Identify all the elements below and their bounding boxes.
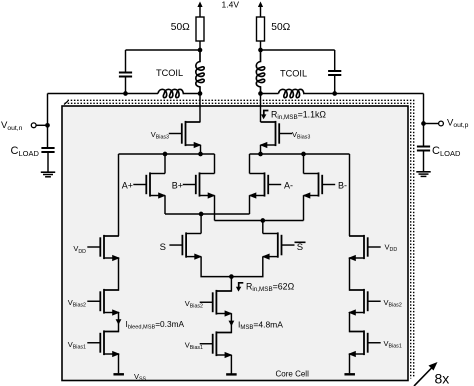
label A- — [284, 181, 293, 191]
capacitor cload left — [41, 148, 54, 152]
current arrow Ibleed — [116, 319, 122, 325]
label A+ — [122, 181, 133, 191]
capacitor cload right — [417, 147, 430, 151]
node right cap — [332, 91, 337, 96]
wire S drain — [200, 214, 202, 234]
svg-text:A-: A- — [284, 181, 293, 191]
label VBias3 left — [151, 130, 169, 141]
node S drain — [199, 212, 204, 217]
label vout_p — [447, 118, 469, 130]
wire left branch — [186, 94, 201, 123]
label B+ — [172, 181, 183, 191]
transistor VDD left — [87, 235, 120, 261]
label cload left — [11, 145, 40, 158]
label Ibleed — [126, 319, 185, 331]
transistor A- — [249, 172, 282, 198]
wire A+ drain — [164, 154, 166, 174]
node VBias3 left source — [198, 152, 203, 157]
label VBias2 right — [384, 298, 402, 309]
node vout_p — [421, 121, 426, 126]
wire tail to VBias2 — [216, 277, 231, 291]
inductor left vertical — [196, 50, 204, 94]
wire left stack top — [118, 154, 120, 236]
wire S source — [201, 257, 231, 277]
node tail — [229, 274, 234, 279]
wire left cap bottom — [125, 77, 127, 94]
wire vout_p — [424, 94, 439, 147]
label Sbar — [295, 242, 306, 253]
transistor VBias2 center — [200, 290, 233, 317]
transistor VBias1 left — [87, 330, 120, 357]
label VBias3 right — [292, 130, 310, 141]
node left tcoil — [198, 91, 203, 96]
wire left cap top — [126, 50, 201, 72]
wire A+ source — [164, 196, 166, 215]
capacitor right tcoil — [328, 71, 341, 75]
label core cell — [276, 370, 310, 379]
replica dotted border inner — [65, 103, 411, 378]
wire vout_n — [36, 94, 47, 148]
transistor VDD right — [348, 235, 381, 261]
wire VDD right drain — [350, 235, 365, 237]
supply label 1.4V — [222, 0, 240, 9]
wire left out line — [48, 93, 201, 95]
transistor A+ — [133, 172, 166, 198]
replica dotted border outer — [64, 100, 414, 377]
label Rin MSB 62 — [246, 281, 295, 293]
wire right branch — [261, 94, 276, 123]
label 8x — [435, 371, 450, 386]
wire VBias2 right source — [350, 313, 365, 332]
node left cap — [123, 91, 128, 96]
wire VDD right source — [350, 258, 365, 290]
wire VBias2 left source — [104, 313, 119, 332]
node right resistor — [258, 48, 263, 53]
supply arrow left — [197, 2, 202, 18]
transistor VBias1 center — [200, 331, 233, 358]
svg-text:B+: B+ — [172, 181, 183, 191]
wire out line right — [250, 153, 350, 155]
node B- drain — [301, 152, 306, 157]
resistor 50ohm left — [196, 17, 204, 50]
wire VBias1 right source — [349, 354, 351, 373]
label TCOIL right — [280, 68, 307, 78]
wire right stack top — [349, 154, 351, 236]
label VDD right — [385, 242, 398, 253]
node Sbar drain — [260, 218, 265, 223]
node VBias3 right source — [258, 152, 263, 157]
supply arrow right — [258, 2, 263, 18]
label Rin MSB 1.1k — [271, 109, 326, 121]
transistor B- — [303, 172, 336, 198]
ground left — [41, 172, 55, 177]
node A+ drain — [163, 152, 168, 157]
wire VDD left drain — [104, 235, 119, 237]
transistor VBias2 left — [87, 289, 120, 316]
annotation Rin MSB 62 arrow — [236, 283, 243, 292]
terminal vout_p — [439, 121, 444, 126]
transistor VBias3 right — [260, 121, 293, 148]
transistor VBias3 left — [169, 121, 202, 148]
wire Sbar drain — [262, 221, 264, 234]
annotation Rin MSB 1.1k arrow — [261, 111, 268, 120]
wire VBias2 center source — [216, 314, 231, 333]
label B- — [338, 181, 347, 191]
node left resistor — [198, 48, 203, 53]
label VDD left — [73, 244, 86, 255]
wire VDD left source — [104, 258, 119, 290]
wire VBias1 left source — [118, 354, 120, 373]
wire B+ drain — [214, 154, 216, 174]
wire line B — [215, 220, 304, 222]
transistor VBias2 right — [348, 289, 381, 316]
inductor right horizontal — [279, 89, 305, 97]
svg-text:B-: B- — [338, 181, 347, 191]
svg-text:TCOIL: TCOIL — [280, 68, 307, 78]
wire VBias3 left source — [200, 145, 202, 154]
svg-text:S: S — [160, 242, 166, 253]
wire Sbar source — [231, 257, 262, 277]
transistor VBias1 right — [348, 330, 381, 357]
terminal VSS center — [226, 373, 237, 375]
svg-text:50Ω: 50Ω — [271, 22, 290, 33]
label VBias1 right — [384, 339, 402, 350]
inductor right vertical — [256, 50, 264, 94]
label VBias1 left — [68, 340, 86, 351]
transistor S — [169, 232, 202, 259]
node right tcoil — [258, 91, 263, 96]
wire right out line — [261, 93, 424, 95]
label vout_n — [1, 120, 23, 132]
svg-text:Core Cell: Core Cell — [276, 370, 310, 379]
wire VBias1 center source — [230, 355, 232, 374]
wire line A — [165, 213, 250, 215]
node vout_n — [45, 123, 50, 128]
label VBias2 left — [68, 298, 86, 309]
wire B- source — [303, 196, 305, 221]
current arrow IMSB — [229, 321, 235, 327]
resistor 50ohm right — [257, 17, 265, 50]
svg-text:1.4V: 1.4V — [222, 0, 240, 9]
label IMSB — [238, 320, 283, 332]
wire out line left — [119, 153, 215, 155]
wire right cap top — [261, 50, 335, 71]
wire A- source — [249, 196, 251, 215]
ground right — [416, 172, 430, 177]
terminal vout_n — [31, 123, 36, 128]
label cload right — [432, 145, 461, 158]
label TCOIL left — [156, 68, 183, 78]
wire right cap bottom — [334, 75, 336, 94]
label 50ohm left — [171, 22, 190, 33]
label 50ohm right — [271, 22, 290, 33]
svg-text:8x: 8x — [435, 371, 450, 386]
svg-text:S: S — [297, 242, 303, 253]
svg-text:TCOIL: TCOIL — [156, 68, 183, 78]
replication arrow 8x — [414, 362, 438, 386]
wire cload right gnd — [423, 151, 425, 172]
terminal VSS right — [344, 373, 355, 375]
wire A- drain — [249, 154, 251, 174]
wire VBias3 right source — [260, 145, 262, 154]
label VBias1 center — [185, 341, 203, 352]
wire B+ source — [214, 196, 216, 221]
label VSS — [134, 372, 147, 383]
transistor Sbar — [262, 232, 295, 259]
transistor B+ — [183, 172, 216, 198]
wire cload left gnd — [47, 152, 49, 172]
label VBias2 center — [185, 299, 203, 310]
wire B- drain — [303, 154, 305, 174]
label S — [160, 242, 166, 253]
terminal VSS left — [113, 373, 124, 375]
svg-text:50Ω: 50Ω — [171, 22, 190, 33]
capacitor left tcoil — [119, 73, 132, 77]
core cell box — [62, 106, 408, 381]
inductor left horizontal — [158, 89, 184, 97]
svg-text:A+: A+ — [122, 181, 133, 191]
